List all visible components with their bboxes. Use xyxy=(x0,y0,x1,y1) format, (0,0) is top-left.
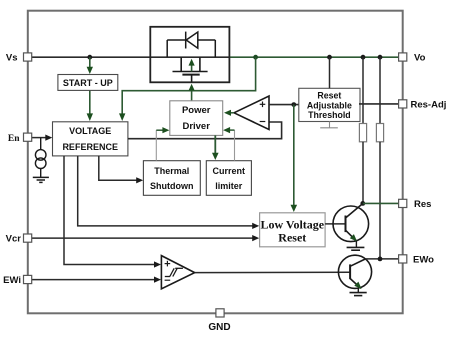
pin EWi xyxy=(24,275,32,283)
wire green gate drive arrow lower from Power Driver xyxy=(189,84,195,101)
svg-text:En: En xyxy=(8,134,20,144)
wire RAT stub to Vo rail xyxy=(329,57,331,88)
wire resistor column 2 xyxy=(379,57,381,123)
comparator U2 with hysteresis xyxy=(161,256,194,289)
pin Vcr xyxy=(24,234,32,242)
node junction RAT stub xyxy=(327,55,332,60)
box Power Driver xyxy=(170,101,223,136)
wire Vo rail (green) xyxy=(229,56,398,58)
node junction on Vs rail xyxy=(87,55,92,60)
IC outer boundary box xyxy=(28,11,403,314)
box Reset Adjustable Threshold xyxy=(299,88,360,121)
svg-text:Driver: Driver xyxy=(182,121,210,132)
svg-text:Vo: Vo xyxy=(414,53,426,64)
wire green Power Driver to Current limiter arrow down xyxy=(212,135,219,160)
transistor Q2 (EW output NPN) xyxy=(338,255,371,288)
pin Res-Adj xyxy=(399,100,407,108)
svg-text:Vs: Vs xyxy=(6,53,18,64)
transistor pass MOSFET xyxy=(173,57,208,82)
node junction Res net xyxy=(360,201,365,206)
wire EWi to comparator minus xyxy=(32,277,161,283)
svg-text:Shutdown: Shutdown xyxy=(150,181,194,191)
svg-text:Adjustable: Adjustable xyxy=(307,100,352,110)
svg-text:REFERENCE: REFERENCE xyxy=(62,142,118,152)
transistor Q1 (reset output NPN) xyxy=(333,204,369,242)
wire green arrow Vs to START-UP xyxy=(87,57,93,74)
pin GND xyxy=(216,309,224,317)
ground for Q1 xyxy=(347,241,365,250)
box Low Voltage Reset xyxy=(260,213,326,247)
svg-text:Res-Adj: Res-Adj xyxy=(411,99,447,110)
pin EWo xyxy=(399,255,407,263)
green emitter arrow Q1 xyxy=(350,234,357,241)
resistor R1 xyxy=(359,124,366,142)
svg-text:EWo: EWo xyxy=(413,254,434,265)
wire VREF output rail to op-amp minus xyxy=(128,122,282,139)
svg-text:Threshold: Threshold xyxy=(308,110,351,120)
wire green Res net to pin xyxy=(363,202,399,204)
pin Vo xyxy=(399,53,407,61)
wire op-amp plus input to RAT xyxy=(269,104,299,106)
box Thermal Shutdown xyxy=(143,161,200,196)
wire green gate drive arrow upper xyxy=(189,59,195,72)
wire VREF bottom stub 1 to hysteresis comparator plus xyxy=(64,156,161,268)
box VOLTAGE REFERENCE xyxy=(53,122,128,156)
ground for Q2 xyxy=(350,288,367,295)
wire EWo net xyxy=(366,258,399,260)
box START-UP xyxy=(58,75,118,91)
resistor R2 xyxy=(376,124,383,142)
wire green op-amp output to Power Driver xyxy=(224,110,234,116)
green emitter arrow Q2 xyxy=(354,282,361,289)
svg-text:Power: Power xyxy=(182,105,211,116)
pin En xyxy=(24,133,32,141)
wire RAT to Res-Adj pin xyxy=(359,103,399,105)
svg-text:EWi: EWi xyxy=(3,275,21,286)
wire comparator output to Q2 base xyxy=(195,271,350,273)
wire green arrow START-UP to VOLTAGE REFERENCE xyxy=(87,90,93,121)
svg-text:Thermal: Thermal xyxy=(154,166,189,176)
node junction EWo net xyxy=(378,257,383,262)
box Current limiter xyxy=(206,161,251,196)
diode D1 body xyxy=(167,32,215,58)
op-amp U1 error amplifier (points left) xyxy=(234,96,269,130)
node junction on Vo rail (green) xyxy=(253,55,258,60)
pass element container box xyxy=(150,27,229,83)
svg-text:GND: GND xyxy=(208,322,230,333)
svg-text:Current: Current xyxy=(213,166,246,176)
hysteresis glyph xyxy=(165,268,183,276)
wire LVR output to transistor Q1 base xyxy=(325,223,345,225)
svg-text:Res: Res xyxy=(414,199,431,210)
wire VREF bottom stub 2 to Low Voltage Reset xyxy=(78,156,260,229)
svg-text:VOLTAGE: VOLTAGE xyxy=(69,126,111,136)
wire En to VOLTAGE REFERENCE with arrow xyxy=(32,135,53,141)
wire VREF bottom stub 3 to Thermal Shutdown xyxy=(99,156,143,184)
svg-text:Vcr: Vcr xyxy=(6,234,22,245)
node junction resistor column 1 xyxy=(361,55,366,60)
current source I1 xyxy=(35,138,46,178)
wire green down to Low Voltage Reset xyxy=(291,105,298,212)
svg-text:Reset: Reset xyxy=(317,91,341,101)
wire Current limiter up to Power Driver (gray riser, green arrow) xyxy=(234,130,236,161)
wire resistor column 1 xyxy=(362,57,364,123)
ground stub under RAT xyxy=(320,122,338,128)
svg-text:START - UP: START - UP xyxy=(63,78,113,88)
wire Thermal Shutdown up to Power Driver (gray riser, green arrow) xyxy=(155,130,157,161)
svg-text:limiter: limiter xyxy=(215,181,243,191)
pin Res xyxy=(399,199,407,207)
node junction op-amp plus / LVR drive xyxy=(291,102,296,107)
wire Vs main rail (black) xyxy=(32,56,230,58)
svg-text:Reset: Reset xyxy=(278,230,306,244)
wire green feedback Vo rail to VOLTAGE REFERENCE xyxy=(122,57,255,114)
node junction resistor column 2 xyxy=(378,55,383,60)
ground for current source xyxy=(33,177,49,182)
wire Vcr to Low Voltage Reset xyxy=(32,235,260,241)
pin Vs xyxy=(24,53,32,61)
